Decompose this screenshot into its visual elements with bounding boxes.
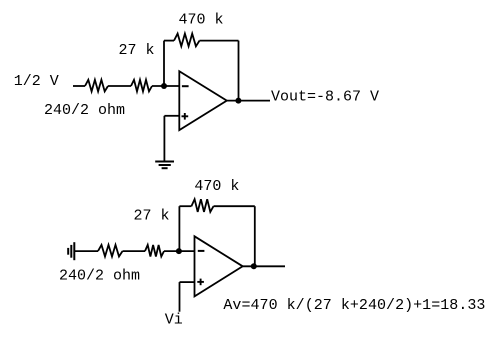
wire noninverting input horizontal bottom circuit [180,281,195,283]
resistor Rf 470 k top circuit [174,34,200,47]
svg-text:27 k: 27 k [134,207,170,224]
label Vout=-8.67 V (output voltage, top circuit) [271,88,379,105]
ground symbol rotated (input, bottom circuit) [68,242,74,260]
wire output bottom circuit [243,265,285,267]
pin minus marker U2 [198,250,205,252]
wire feedback left vertical bottom circuit [178,206,180,251]
node output junction dot bottom circuit [251,263,257,269]
label 1/2 V (source voltage, top circuit) [14,73,59,90]
svg-text:1/2 V: 1/2 V [14,73,59,90]
wire feedback top right segment bottom circuit [214,205,255,207]
label 470 k (feedback resistor value, bottom circuit) [194,178,239,195]
resistor Rf2 470 k bottom circuit [191,199,213,212]
wire between R1 and R2 top circuit [108,85,131,87]
wire R4 to inverting input bottom circuit [164,250,195,252]
wire feedback top right segment top circuit [200,40,239,42]
svg-text:240/2 ohm: 240/2 ohm [59,267,140,284]
wire feedback top left segment top circuit [164,40,174,42]
wire feedback left vertical top circuit [163,41,165,86]
wire input left segment bottom circuit [74,250,98,252]
label 27 k (input resistor value, top circuit) [119,42,155,59]
wire feedback right vertical top circuit [238,41,240,101]
wire between R3 and R4 bottom circuit [123,250,146,252]
resistor R2 27 k top circuit [131,80,152,92]
svg-text:Vout=-8.67 V: Vout=-8.67 V [271,88,379,105]
wire noninverting input vertical to ground top circuit [163,116,165,162]
svg-text:470 k: 470 k [179,12,224,29]
label 27 k (input resistor value, bottom circuit) [134,207,170,224]
node output junction dot top circuit [235,98,241,104]
wire feedback top left segment bottom circuit [179,205,191,207]
op-amp U1 triangle top circuit [179,71,227,130]
pin plus marker U1 [182,113,189,120]
wire output top circuit [227,100,270,102]
svg-text:Vi: Vi [165,312,183,329]
label Vi (input voltage, bottom circuit) [165,312,183,329]
svg-text:240/2 ohm: 240/2 ohm [44,102,125,119]
label 240/2 ohm (source resistance, top circuit) [44,102,125,119]
label Av equation (gain, bottom circuit) [223,297,485,314]
pin plus marker U2 [197,279,204,286]
ground symbol top circuit [155,162,174,169]
wire feedback right vertical bottom circuit [254,206,256,266]
svg-text:470 k: 470 k [194,178,239,195]
wire noninverting input vertical to Vi bottom circuit [179,282,181,312]
node A junction dot (inverting input, top circuit) [161,83,167,89]
resistor R3 240/2 ohm bottom circuit [98,245,123,257]
op-amp U2 triangle bottom circuit [195,236,243,296]
wire input left segment top circuit [73,85,85,87]
svg-text:27 k: 27 k [119,42,155,59]
svg-text:Av=470 k/(27 k+240/2)+1=18.33: Av=470 k/(27 k+240/2)+1=18.33 [223,297,485,314]
pin minus marker U1 [182,85,189,87]
wire R2 to inverting input top circuit [152,85,179,87]
resistor R4 27 k bottom circuit [145,245,164,257]
node B junction dot (inverting input, bottom circuit) [176,248,182,254]
resistor R1 240/2 ohm top circuit [85,80,108,92]
label 240/2 ohm (source resistance, bottom circuit) [59,267,140,284]
label 470 k (feedback resistor value, top circuit) [179,12,224,29]
wire noninverting input horizontal top circuit [164,115,179,117]
